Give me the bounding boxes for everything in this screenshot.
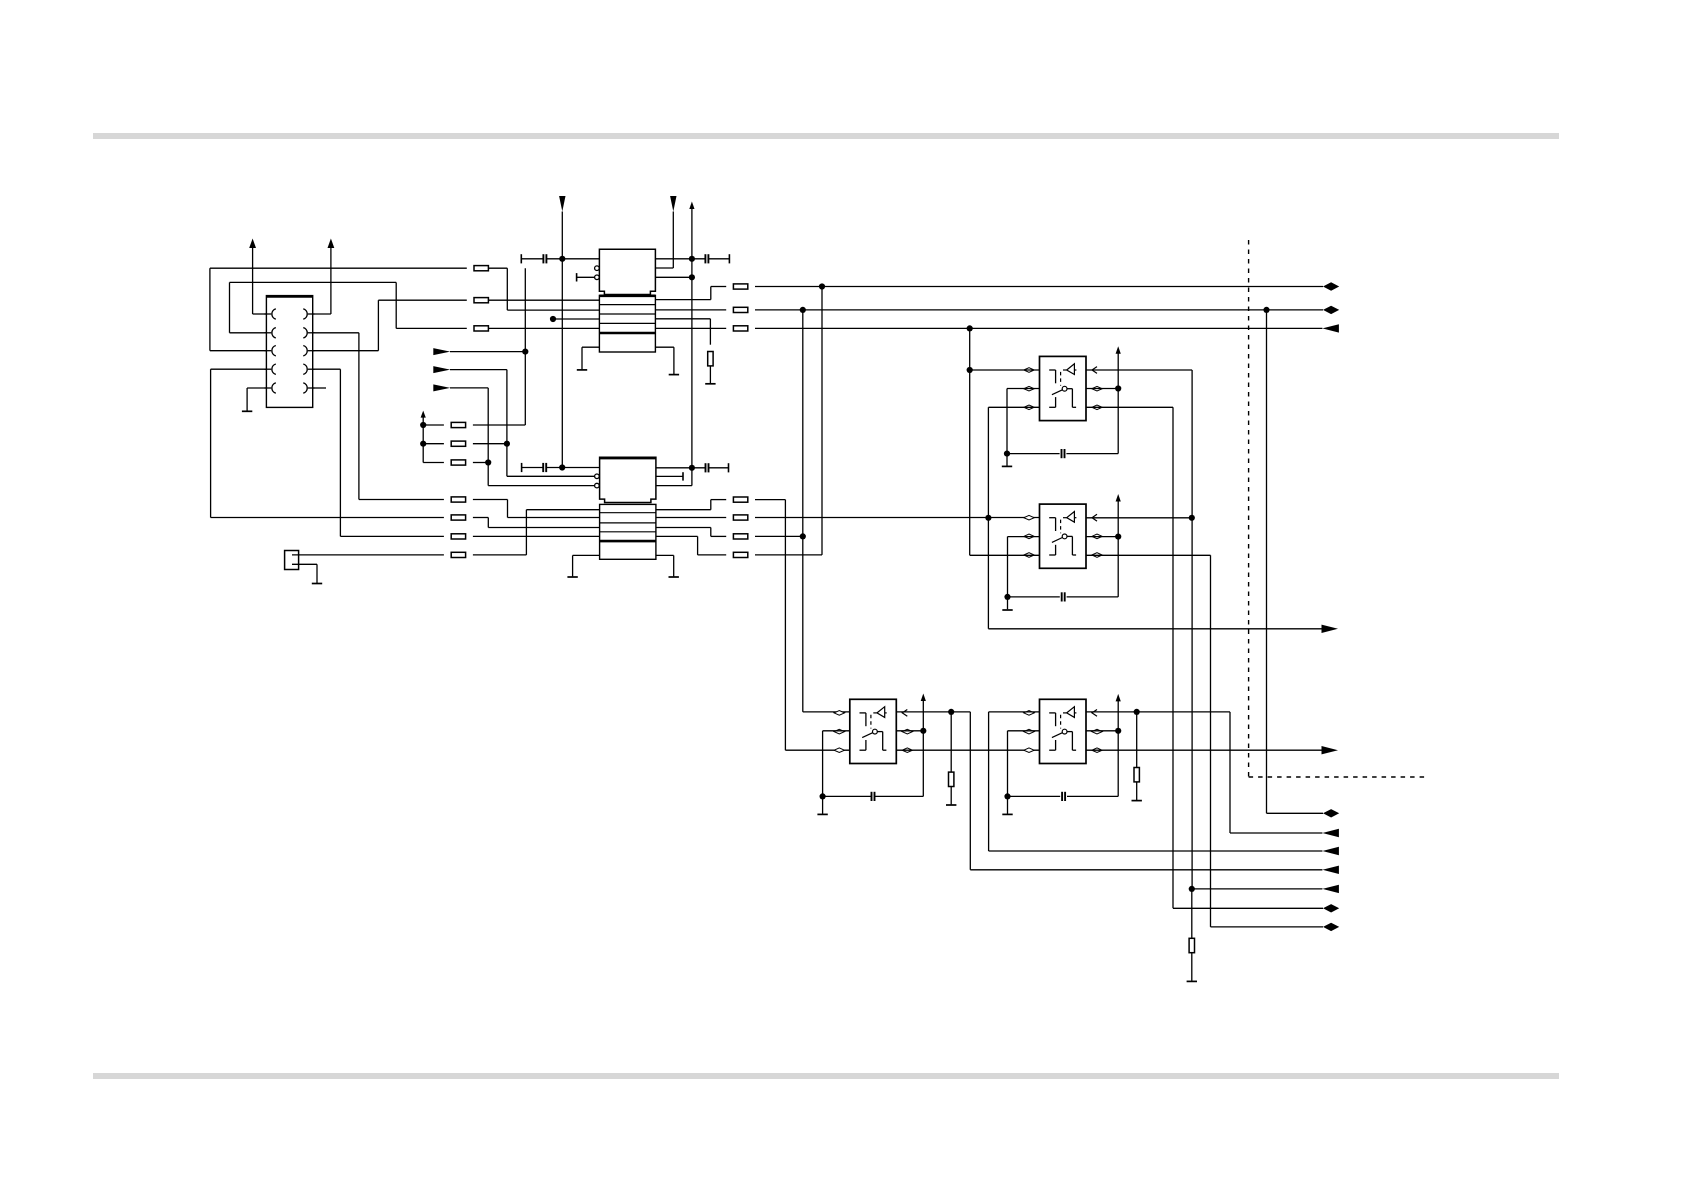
capacitor C7 [823, 795, 872, 797]
wire U1 pin2 right [1086, 388, 1118, 390]
ground [242, 410, 252, 412]
wire down from R14 node [1266, 310, 1268, 813]
input arrow IN1 [433, 348, 450, 355]
resistor R19 [711, 535, 726, 537]
net wire (R16 row down) [969, 328, 971, 555]
resistor R23 (to ground) [1191, 889, 1193, 938]
wire P1 L5 to ground [247, 387, 266, 389]
arrow (left) [1322, 847, 1339, 855]
node [1004, 451, 1010, 457]
ground [312, 583, 322, 585]
optocoupler U2 [1024, 504, 1102, 568]
wire T2 pin4 to resistor R20 [656, 535, 698, 537]
wire P1 R2 to resistor R8 row [313, 332, 359, 334]
resistor R4 [423, 424, 444, 426]
wire U3 pin3 row [896, 749, 1039, 751]
wire [1117, 501, 1119, 597]
power arrow (up) [1116, 346, 1121, 354]
ground [567, 576, 577, 578]
resistor R15 (to ground) [709, 319, 711, 345]
node [985, 515, 991, 521]
arrow (right) [1322, 746, 1339, 754]
wire P1 L3 [210, 350, 267, 352]
input arrow IN2 [433, 366, 450, 373]
stub terminal [656, 475, 683, 477]
wire to T2 pin 1 [525, 510, 527, 555]
connector J2 [285, 551, 299, 570]
wire U3 pin2 left to ground [823, 730, 850, 732]
T1 ground leg right [655, 346, 674, 348]
wire down to output arrow [969, 712, 971, 870]
T1 ground leg left [582, 346, 599, 348]
resistor R6 [423, 462, 444, 464]
wire [577, 276, 595, 278]
wire U1 pin2 left to ground [1007, 388, 1040, 390]
resistor R21 (to ground) [950, 712, 952, 772]
bidir arrow [1323, 904, 1339, 912]
wire from above [561, 467, 563, 469]
bidir arrow [1323, 923, 1339, 931]
arrow terminal to P1 pin R1 [330, 248, 332, 315]
wire U3 pin2 right [896, 730, 923, 732]
wire U3 pin1 right [896, 711, 970, 713]
node [820, 793, 826, 799]
node [522, 349, 528, 355]
wire U4 pin3 row to output arrow [1086, 749, 1322, 751]
wire [553, 318, 599, 320]
wire J2 pin2 to ground [292, 563, 317, 565]
node [1115, 534, 1121, 540]
node [559, 256, 565, 262]
wire J2 pin1 to resistor R11 row [292, 554, 444, 556]
optocoupler U4 [1024, 699, 1102, 763]
wire to T2 pin 3 [487, 518, 489, 528]
wire to T2 pin 2 [507, 500, 509, 518]
terminal bar [576, 273, 578, 281]
arrow (left) [1322, 829, 1339, 837]
resistor R5 [423, 443, 444, 445]
arrow (left) [1322, 866, 1339, 874]
resistor R14 [655, 309, 726, 311]
node [967, 325, 973, 331]
ground [1187, 980, 1197, 982]
resistor R10 [340, 535, 444, 537]
wire P1 L4 to resistor R9 row [211, 368, 267, 370]
node [689, 256, 695, 262]
net wire (R14 row down to opto U3) [802, 310, 804, 712]
wire T2 pin3 to resistor R19 [656, 527, 711, 529]
wire T1 pin3 to resistor R15 [655, 318, 710, 320]
node [1115, 728, 1121, 734]
T2 pin circle (left, pin c) [595, 483, 600, 488]
wire T2 pin1 to resistor R17 [656, 509, 711, 511]
node [1189, 515, 1195, 521]
wire output row [1192, 888, 1323, 890]
wire U1 pin3 left [988, 406, 1039, 408]
connector P1 [265, 296, 315, 408]
node [1115, 385, 1121, 391]
resistor R1 [210, 267, 467, 269]
resistor R2 [378, 299, 466, 301]
wire down to output arrow [1229, 712, 1231, 833]
wire to T2 pin circle [507, 475, 595, 477]
ground [1002, 813, 1012, 815]
net wire to output arrow [988, 628, 1321, 630]
wire output row [1211, 926, 1324, 928]
node [819, 283, 825, 289]
node [1189, 886, 1195, 892]
capacitor C2 [655, 258, 705, 260]
capacitor C3 [521, 463, 523, 472]
ground [1002, 609, 1012, 611]
resistor R20 [698, 554, 727, 556]
wire U2 pin2 left to ground [1008, 536, 1040, 538]
node [1004, 793, 1010, 799]
power arrow (up) [1116, 494, 1121, 502]
power arrow (up) [921, 694, 926, 702]
arrow terminal to P1 pin L1 [252, 248, 254, 315]
T2 ground leg left [573, 554, 600, 556]
wire U4 pin1 left [989, 711, 1040, 713]
wire down to opto U3 [784, 500, 786, 751]
bottom grey rule [93, 1073, 1559, 1079]
optocoupler U3 [834, 699, 912, 763]
ground [1132, 800, 1142, 802]
node [920, 728, 926, 734]
wire [450, 351, 525, 353]
node [1004, 594, 1010, 600]
T2 pin circle (left, pin b) [595, 474, 600, 479]
wire P1 R1 [313, 313, 331, 315]
wire U2 pin1 right [1086, 517, 1192, 519]
wire T1 pin1 to resistor R13 [655, 299, 710, 301]
T2 ground leg right [656, 554, 674, 556]
T1 pin circle (left, pin b) [595, 266, 600, 271]
ground [1002, 465, 1012, 467]
wire U2 pin3 left [970, 554, 1040, 556]
node [420, 422, 426, 428]
wire to output arrow [989, 850, 1323, 852]
isolation boundary (dashed) [1248, 240, 1250, 777]
wire T1 right pin to down-arrow [655, 267, 673, 269]
node (T1 pin 3 tap) [550, 316, 556, 322]
resistor R17 [711, 499, 726, 501]
arrow (right) [1322, 625, 1339, 633]
ground [669, 374, 679, 376]
wire U1 pin1 right [1086, 369, 1192, 371]
resistor R22 (to ground) [1136, 712, 1138, 768]
arrow (left) [1322, 885, 1339, 893]
node [559, 464, 565, 470]
capacitor C1 [520, 254, 522, 263]
bidir arrow [1323, 282, 1339, 290]
wire [1117, 353, 1119, 454]
node [800, 307, 806, 313]
node [504, 441, 510, 447]
wire U2 pin3 right [1086, 554, 1211, 556]
T1 pin circle (left, pin c) [595, 275, 600, 280]
node [948, 709, 954, 715]
node [689, 465, 695, 471]
capacitor C6 [1008, 596, 1060, 598]
transformer T2 [600, 457, 656, 559]
wire to T1 pin 2 [506, 268, 508, 310]
ground [817, 813, 827, 815]
capacitor C4 [656, 467, 706, 469]
wire P1 R4 to resistor R10 row [313, 368, 341, 370]
resistor R18 [656, 517, 726, 519]
wire [655, 276, 692, 278]
wire [922, 700, 924, 796]
node [485, 459, 491, 465]
wire up to R13 node [821, 287, 823, 555]
node [689, 274, 695, 280]
node [1263, 307, 1269, 313]
wire to T2 pin circle [488, 485, 594, 487]
bidir arrow [1323, 809, 1339, 817]
node [967, 367, 973, 373]
ground [577, 369, 587, 371]
wire [709, 366, 711, 383]
node [1134, 709, 1140, 715]
node [800, 533, 806, 539]
transformer T1 [599, 249, 655, 352]
wire U1 pin3 right [1086, 406, 1173, 408]
capacitor C5 [1007, 453, 1060, 455]
resistor R8 [359, 499, 444, 501]
long wire down to T2 [691, 209, 693, 486]
wire U4 pin1 right [1086, 711, 1230, 713]
wire P1 L2 to resistor R3 row [230, 332, 267, 334]
resistor R9 [211, 517, 444, 519]
optocoupler U1 [1024, 356, 1102, 420]
resistor R13 [711, 286, 726, 288]
ground [705, 383, 715, 385]
wire [524, 268, 526, 425]
wire P1 R3 to resistor R2 [313, 350, 379, 352]
wire [1117, 701, 1119, 797]
resistor R11 [451, 552, 465, 557]
wire U4 pin2 left to ground [1008, 730, 1040, 732]
wire [450, 387, 488, 389]
wire U1 pin1 left [970, 369, 1040, 371]
bidir arrow [1323, 306, 1339, 314]
wire [450, 369, 507, 371]
arrow (left) [1322, 324, 1339, 332]
wire [561, 212, 563, 468]
power arrow (down) [670, 196, 676, 212]
wire output row [1173, 907, 1323, 909]
input arrow IN3 [433, 384, 450, 391]
capacitor C8 [1008, 795, 1061, 797]
ground [669, 576, 679, 578]
wire U2 pin2 right [1086, 536, 1118, 538]
resistor R16 [655, 327, 726, 329]
power arrow (up) [1116, 694, 1121, 702]
ground [946, 804, 956, 806]
power arrow (up) [689, 202, 694, 210]
stub P1 R5 [313, 387, 326, 389]
arrow terminal (up) [421, 411, 426, 418]
top grey rule [93, 133, 1559, 139]
power arrow (down) [559, 196, 565, 212]
wire P1 L1 [253, 313, 267, 315]
wire U4 pin2 right [1086, 730, 1118, 732]
resistor R3 [396, 327, 467, 329]
node [420, 441, 426, 447]
